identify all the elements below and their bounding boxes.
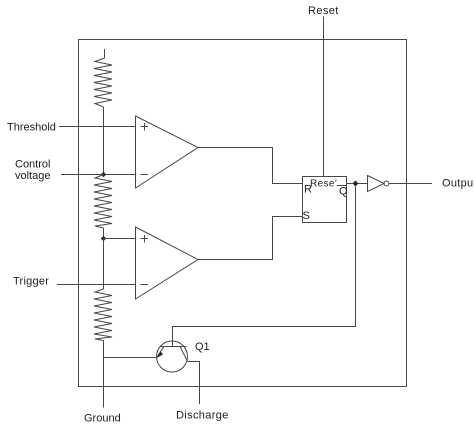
wire R3 to ground	[103, 340, 105, 408]
U1 minus sign	[141, 174, 149, 176]
svg-text:Rese’: Rese’	[310, 179, 337, 190]
Q1 emitter	[157, 347, 164, 358]
wire Q output to inverter	[347, 183, 368, 185]
resistor R2	[94, 175, 112, 229]
inverter bubble	[384, 181, 389, 186]
svg-text:Output: Output	[442, 178, 474, 190]
wire chain node to R3	[103, 239, 105, 290]
inverter U4	[368, 176, 385, 192]
wire U1 output to FF R input	[198, 148, 303, 184]
Q1 emitter arrow	[157, 351, 164, 358]
svg-text:Control: Control	[15, 159, 50, 171]
IC boundary box	[79, 40, 407, 387]
op-amp U2 comparator	[136, 227, 199, 299]
U1 plus sign	[141, 123, 149, 131]
op-amp U1 comparator	[136, 116, 199, 188]
wire output	[389, 183, 432, 185]
wire node to comparator U2 plus	[104, 238, 136, 240]
svg-text:voltage: voltage	[15, 170, 50, 182]
wire chain R1 to control node	[103, 107, 105, 175]
wire threshold	[59, 126, 136, 128]
node Q output (junction dot)	[353, 181, 359, 187]
svg-text:Reset: Reset	[308, 5, 339, 17]
resistor R3	[94, 289, 112, 341]
svg-text:Ground: Ground	[84, 413, 121, 425]
svg-text:Q: Q	[339, 186, 348, 198]
wire Q node to Q1 base	[173, 187, 356, 348]
wire emitter to chain	[104, 357, 158, 359]
wire reset vertical	[323, 17, 325, 177]
Q1 collector	[180, 347, 188, 362]
svg-text:Threshold: Threshold	[7, 122, 56, 134]
wire collector to discharge	[188, 362, 200, 405]
resistor R1	[94, 49, 112, 107]
node control (junction dot)	[101, 172, 106, 177]
svg-text:Discharge: Discharge	[176, 410, 229, 422]
wire control voltage	[61, 174, 136, 176]
wire U2 output to FF S input	[198, 217, 303, 260]
flip-flop U3 box	[303, 177, 347, 223]
wire R2 to trigger node	[103, 228, 105, 239]
svg-text:Q1: Q1	[195, 341, 210, 353]
node trigger divider (junction dot)	[101, 236, 106, 241]
U2 minus sign	[141, 284, 149, 286]
transistor Q1 body	[157, 341, 188, 372]
svg-text:Trigger: Trigger	[13, 276, 49, 288]
svg-text:S: S	[303, 210, 310, 222]
Q1 base bar	[160, 346, 187, 348]
wire trigger	[57, 284, 136, 286]
U2 plus sign	[141, 235, 149, 243]
Q overline	[337, 185, 346, 187]
